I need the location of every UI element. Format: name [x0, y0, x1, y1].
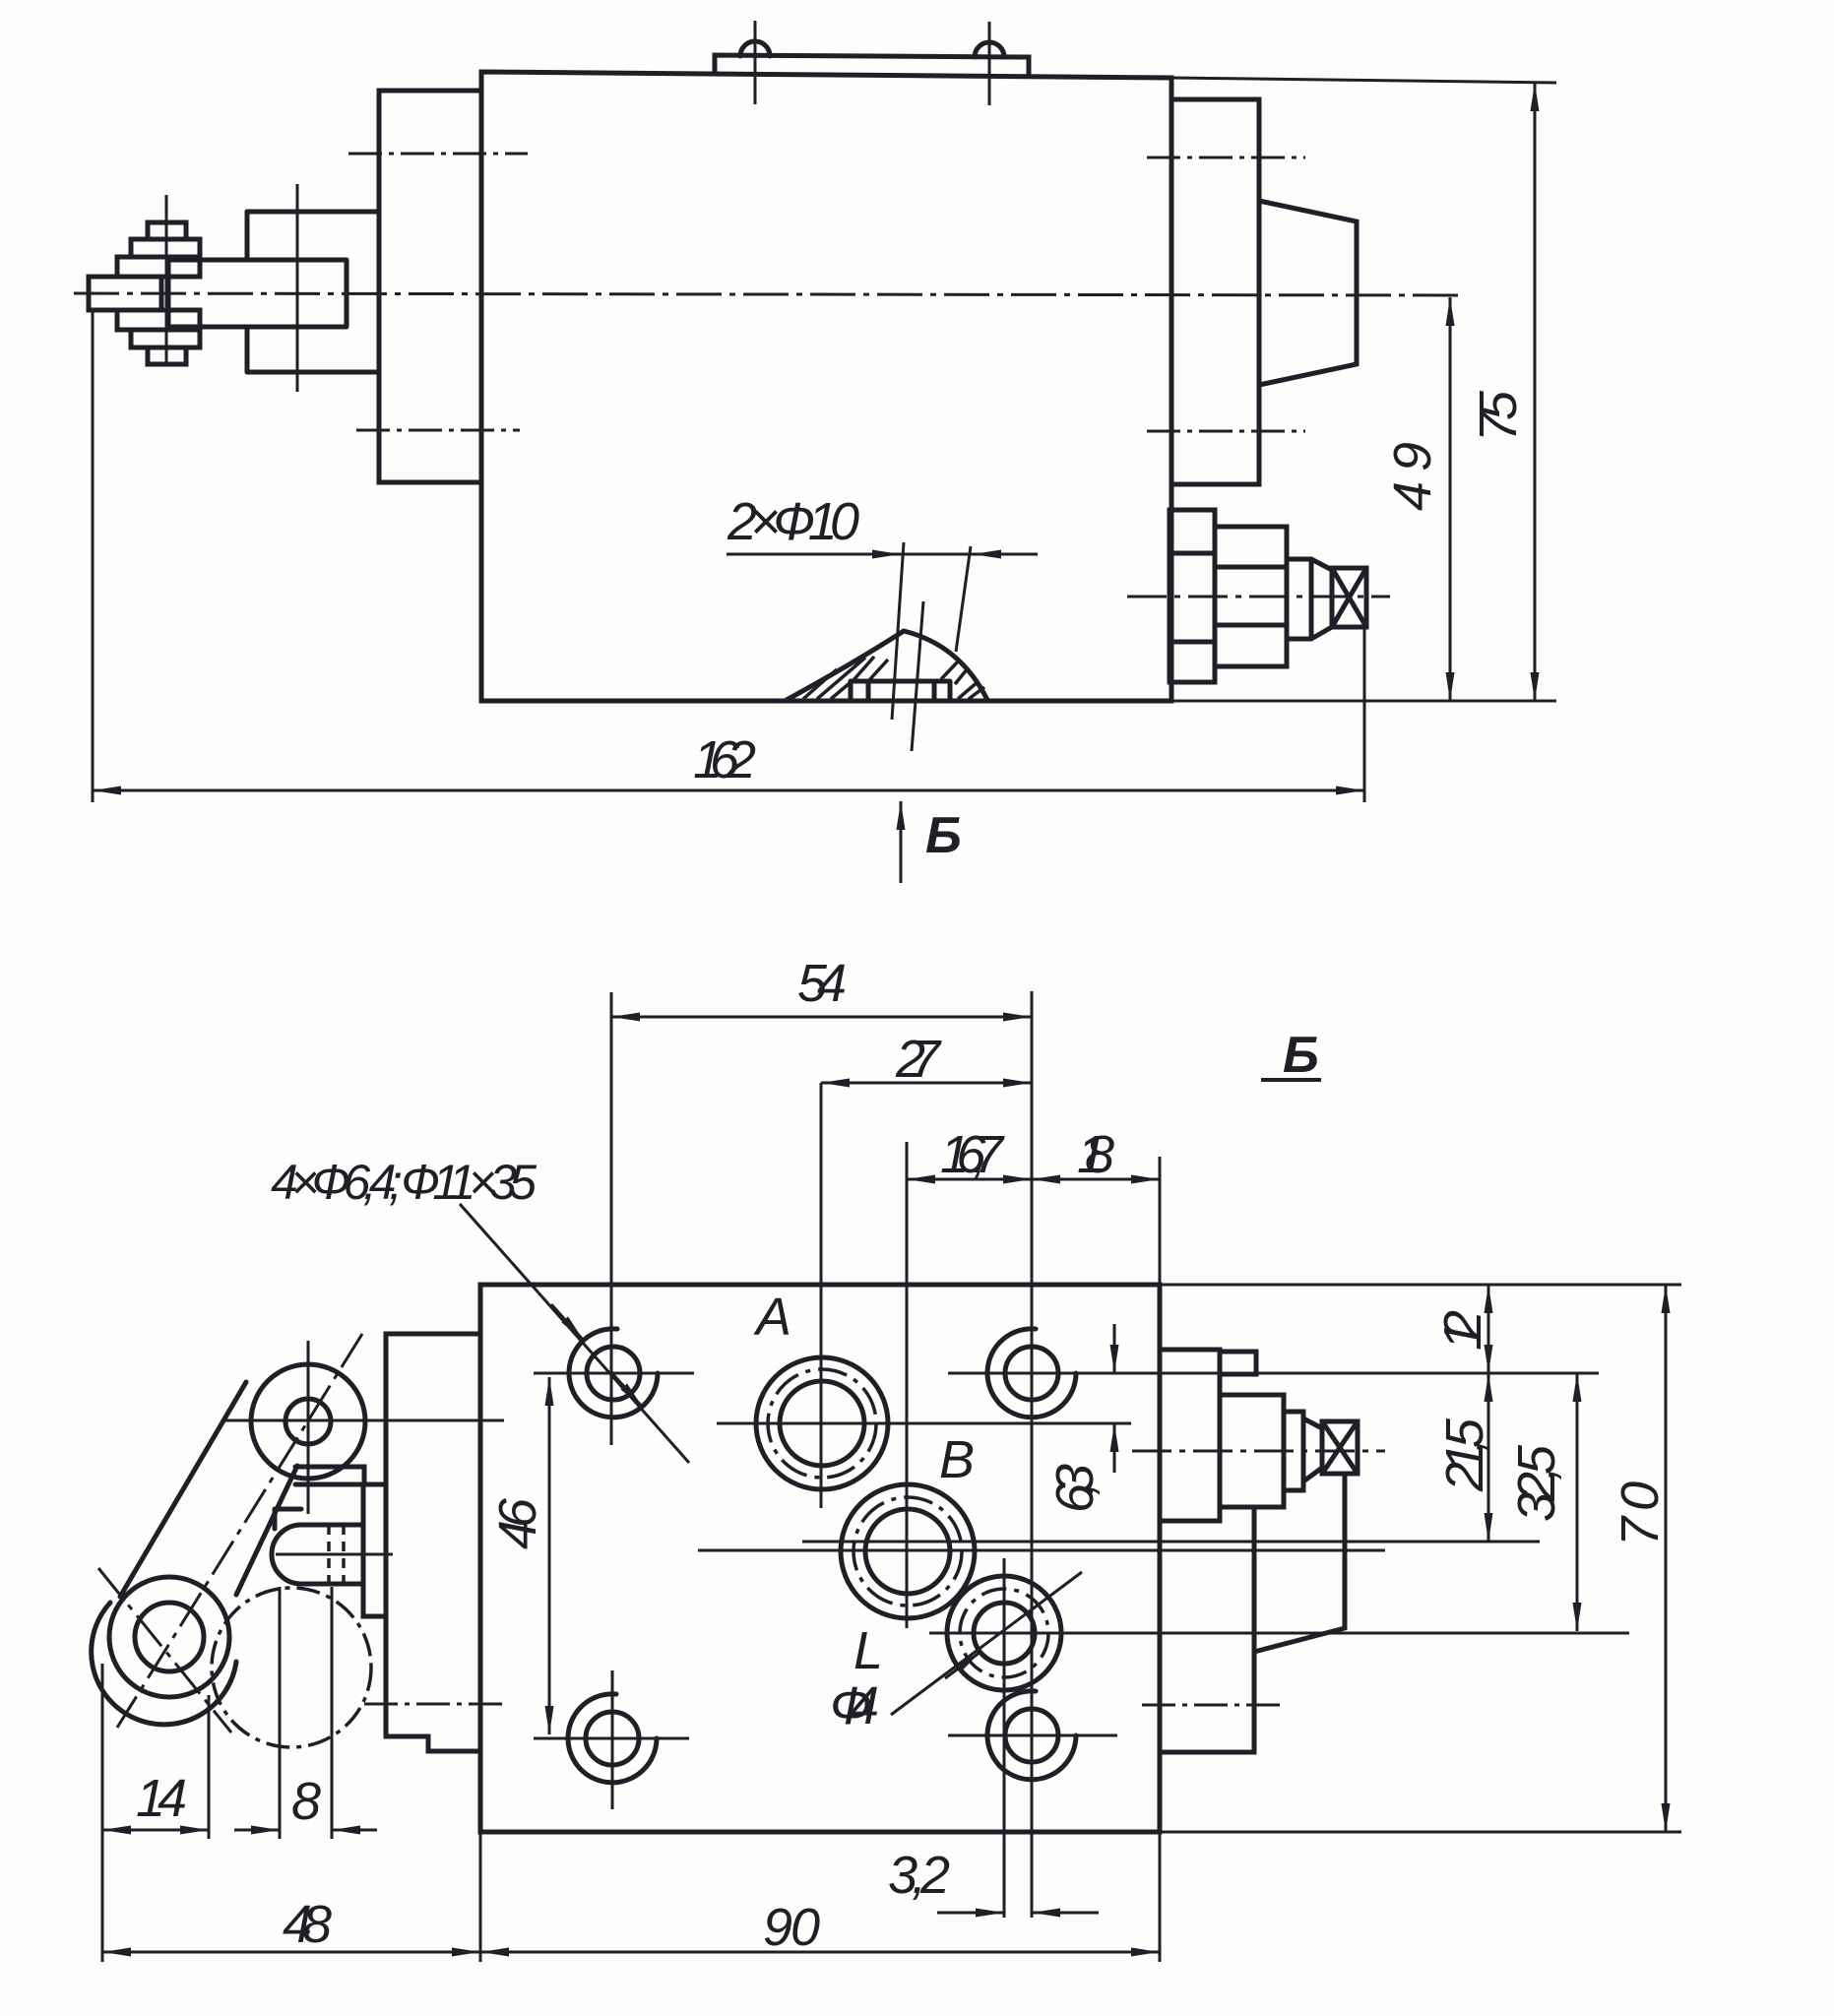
svg-text:4×Ф6,4; Ф11×35: 4×Ф6,4; Ф11×35	[271, 1155, 537, 1210]
svg-text:6,3: 6,3	[1045, 1464, 1105, 1513]
svg-text:12: 12	[1433, 1310, 1492, 1351]
svg-text:Б: Б	[925, 807, 962, 864]
svg-text:14: 14	[136, 1769, 187, 1828]
svg-text:8: 8	[291, 1772, 321, 1831]
svg-text:54: 54	[797, 954, 847, 1013]
svg-text:Б: Б	[1283, 1027, 1319, 1084]
svg-text:75: 75	[1469, 390, 1528, 442]
svg-text:27: 27	[895, 1030, 942, 1089]
svg-text:2×Ф10: 2×Ф10	[727, 492, 859, 551]
svg-text:L: L	[854, 1621, 883, 1680]
svg-text:48: 48	[283, 1895, 332, 1954]
svg-text:162: 162	[693, 730, 756, 789]
svg-text:A: A	[753, 1288, 791, 1347]
svg-text:21,5: 21,5	[1435, 1417, 1494, 1492]
svg-text:46: 46	[488, 1497, 547, 1549]
svg-text:18: 18	[1077, 1125, 1114, 1184]
svg-text:B: B	[939, 1430, 975, 1489]
svg-text:32,5: 32,5	[1507, 1444, 1566, 1522]
svg-text:90: 90	[763, 1898, 820, 1957]
svg-text:16,7: 16,7	[940, 1125, 1005, 1184]
svg-text:Ф4: Ф4	[830, 1676, 879, 1735]
svg-text:3,2: 3,2	[888, 1846, 950, 1905]
